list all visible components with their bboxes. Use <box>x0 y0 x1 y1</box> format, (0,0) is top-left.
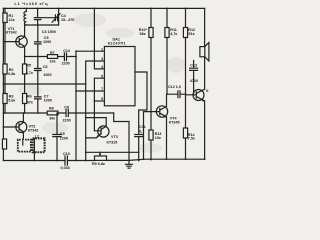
svg-text:12к: 12к <box>9 18 15 22</box>
svg-text:VT3: VT3 <box>111 135 118 139</box>
capacitor C3 <box>34 8 55 35</box>
svg-text:R6: R6 <box>27 95 32 99</box>
wire VT4 base drop <box>143 112 145 161</box>
svg-text:9: 9 <box>101 97 103 101</box>
svg-text:L2: L2 <box>35 135 39 139</box>
svg-text:L1 Ч=465 кГц: L1 Ч=465 кГц <box>15 2 49 6</box>
potentiometer R9 <box>92 152 107 166</box>
wire pin1 feed <box>75 50 104 52</box>
resistor R6 <box>23 84 33 113</box>
svg-text:С6: С6 <box>43 65 48 69</box>
svg-text:47к: 47к <box>27 100 33 104</box>
svg-text:R5: R5 <box>26 64 31 68</box>
resistor R14 <box>183 128 195 160</box>
capacitor C11 <box>135 125 146 161</box>
svg-text:С8: С8 <box>64 106 69 110</box>
pin 4 <box>101 65 104 69</box>
svg-text:10к: 10к <box>50 59 56 63</box>
svg-text:2200: 2200 <box>63 118 71 122</box>
svg-text:R8: R8 <box>49 107 54 111</box>
wire bus drop to ground <box>114 113 130 164</box>
capacitor C6 <box>35 57 52 85</box>
svg-text:КТ342: КТ342 <box>28 128 39 132</box>
svg-text:68к: 68к <box>140 32 146 36</box>
transistor VT2 <box>3 112 39 139</box>
wire IC output right stub <box>135 72 147 134</box>
wire V1 supply drop x76 <box>75 51 77 161</box>
svg-text:2200: 2200 <box>62 62 70 66</box>
svg-text:10к: 10к <box>155 136 161 140</box>
svg-text:4,7к: 4,7к <box>26 71 33 75</box>
svg-text:1: 1 <box>101 47 103 51</box>
svg-text:R7: R7 <box>50 51 55 55</box>
inductor L1 <box>24 8 27 25</box>
capacitor C4 variable <box>41 8 75 25</box>
svg-text:6,8к: 6,8к <box>8 72 15 76</box>
svg-text:30к: 30к <box>49 116 55 120</box>
wire V2 supply drop x94.4 <box>94 8 105 69</box>
svg-text:5: 5 <box>101 74 103 78</box>
capacitor C12 <box>166 85 186 98</box>
svg-text:КТ342: КТ342 <box>6 31 17 35</box>
resistor R2 <box>3 41 16 84</box>
wire pin3 feed <box>85 61 105 161</box>
pin 7 <box>101 87 103 91</box>
transistor VT5 <box>186 57 210 160</box>
ground <box>126 164 133 168</box>
resistor R7 <box>47 51 64 64</box>
capacitor C13 <box>190 61 198 96</box>
svg-text:5,6к: 5,6к <box>8 98 15 102</box>
svg-text:КТ345: КТ345 <box>169 120 180 124</box>
svg-text:1000: 1000 <box>43 40 51 44</box>
pin 5 <box>101 74 103 78</box>
resistor R11 <box>165 8 178 95</box>
transistor VT4 <box>144 94 180 160</box>
pin 3 <box>101 57 103 61</box>
capacitor C9 <box>53 113 68 161</box>
capacitor C14 <box>62 49 77 65</box>
svg-text:7: 7 <box>101 87 103 91</box>
svg-text:С3 1500: С3 1500 <box>42 30 56 34</box>
pin 9 <box>101 97 103 101</box>
svg-text:51к: 51к <box>189 32 195 36</box>
svg-text:1000: 1000 <box>44 99 52 103</box>
wire left rail <box>2 8 4 160</box>
svg-text:1000: 1000 <box>43 73 51 77</box>
wire top supply rail <box>3 7 204 9</box>
wire mid bus y84 <box>3 83 87 85</box>
capacitor C8 <box>63 106 71 123</box>
svg-text:С9: С9 <box>60 132 65 136</box>
svg-text:7,5к: 7,5к <box>188 137 195 141</box>
pin 1 <box>101 47 103 51</box>
speaker BA1 <box>200 8 209 61</box>
wire pin9 feed <box>94 100 104 102</box>
resistor R12 <box>183 8 195 128</box>
wire emitter VT1 node <box>24 56 48 58</box>
svg-text:R9 6,8к: R9 6,8к <box>92 162 105 166</box>
wire tank node <box>24 24 58 26</box>
capacitor C5 <box>35 25 52 57</box>
wire pin5 feed <box>94 78 105 131</box>
svg-text:3: 3 <box>101 57 103 61</box>
svg-text:С14: С14 <box>63 49 71 53</box>
wire VT3 collector to bus <box>85 117 106 119</box>
transistor VT3 <box>86 118 118 145</box>
wire wiper line <box>86 151 139 153</box>
svg-text:4,7к: 4,7к <box>170 32 177 36</box>
capacitor C7 <box>35 84 52 113</box>
wire pin7 feed <box>76 90 104 92</box>
resistor R3 <box>3 84 16 113</box>
transistor VT1 <box>3 25 27 57</box>
label L1 f=465 kHz <box>15 2 49 6</box>
resistor R5 <box>23 57 33 85</box>
svg-text:С10: С10 <box>63 152 70 156</box>
svg-text:1200: 1200 <box>60 137 68 141</box>
scan smudges <box>18 13 186 153</box>
resistor R8 <box>47 107 58 121</box>
svg-text:15...470: 15...470 <box>61 18 74 22</box>
capacitor C10 <box>61 152 70 170</box>
transformer L2 <box>18 135 45 162</box>
resistor R10 <box>139 8 153 112</box>
resistor R1 <box>3 8 15 41</box>
resistor R4 <box>2 139 6 149</box>
svg-text:К224УП1: К224УП1 <box>108 42 126 46</box>
svg-text:0,033: 0,033 <box>61 166 70 170</box>
svg-text:КТ315: КТ315 <box>107 140 118 144</box>
wire bottom bus y113 <box>3 112 113 114</box>
resistor R13 <box>149 112 161 161</box>
op-amp IC DA1 <box>104 38 135 106</box>
svg-text:С13: С13 <box>190 63 197 67</box>
svg-text:4700: 4700 <box>190 79 198 83</box>
svg-text:С12 1,0: С12 1,0 <box>168 85 181 89</box>
wire bottom rail <box>3 159 204 160</box>
